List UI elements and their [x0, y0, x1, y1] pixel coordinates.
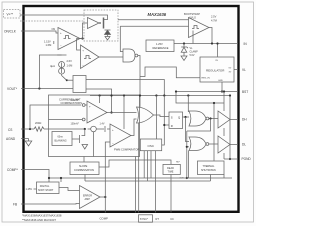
- zener D2 VL clamp: [183, 44, 185, 48]
- svg-text:200Ω: 200Ω: [35, 121, 41, 125]
- main bus line: [90, 95, 230, 97]
- node CS comparator junction: [84, 128, 86, 130]
- svg-text:100mV*: 100mV*: [71, 99, 80, 102]
- svg-text:VOUT*: VOUT*: [7, 87, 18, 91]
- regulator box: [200, 57, 234, 82]
- blanking box: [52, 132, 72, 146]
- wire slope comp out to dead time: [99, 160, 171, 167]
- wire rail upper to UVLO: [118, 19, 189, 21]
- hysteresis glyph U2: [84, 56, 91, 59]
- svg-text:1.25V: 1.25V: [156, 42, 163, 46]
- wire AGND: [21, 138, 29, 140]
- svg-text:4.7M: 4.7M: [211, 18, 217, 22]
- svg-text:2.6V: 2.6V: [67, 59, 73, 63]
- wire rail lower to UVLO: [120, 25, 188, 27]
- wire driver 2 output: [230, 144, 238, 146]
- pin V+ dashed box: [4, 10, 21, 19]
- svg-text:R: R: [171, 124, 173, 128]
- wire blanking circle down: [93, 132, 95, 157]
- driver A3 low side: [218, 136, 230, 153]
- wire error amp output to bottom pin COMP: [104, 197, 106, 213]
- battery 1.4V: [104, 126, 106, 132]
- wire bus stub to comparator: [99, 96, 101, 104]
- transistor Q2: [79, 135, 81, 143]
- wire switch to timer box: [67, 79, 73, 81]
- wire dead time to bottom pin: [170, 175, 172, 213]
- container box current limit section: [49, 95, 140, 157]
- svg-text:MAX1636: MAX1636: [148, 12, 167, 17]
- switch S1: [62, 76, 67, 80]
- svg-text:COMPENSATION: COMPENSATION: [74, 169, 94, 172]
- wire U3 output down to VL line: [209, 28, 212, 44]
- wire G4 output to driver 2: [209, 143, 218, 145]
- svg-text:*MAX1636/MAX1637/MAX1638: *MAX1636/MAX1637/MAX1638: [22, 213, 62, 217]
- buffer A1: [88, 18, 100, 29]
- ground Q2: [82, 145, 88, 150]
- svg-text:−: −: [60, 43, 62, 47]
- ground internal switch: [105, 35, 110, 41]
- comparator U5 PWM: [110, 124, 131, 147]
- wire driver rail 2: [223, 128, 225, 136]
- svg-text:**MAX1636 AND MAX1637: **MAX1636 AND MAX1637: [22, 218, 56, 222]
- svg-text:FB: FB: [13, 203, 17, 207]
- wire U1 output to buffer: [80, 23, 87, 39]
- wire error amp output: [100, 196, 105, 198]
- svg-text:UVLO: UVLO: [189, 15, 196, 19]
- svg-text:DH: DH: [242, 118, 247, 122]
- gate G3 NOR high side: [189, 111, 206, 126]
- svg-text:GND: GND: [218, 80, 223, 82]
- svg-text:V+**: V+**: [7, 13, 14, 17]
- node U1 output: [81, 37, 83, 39]
- node bus 1: [99, 94, 101, 96]
- node PGND: [229, 158, 231, 160]
- wire soft start top tap: [60, 178, 62, 182]
- svg-text:COMP*: COMP*: [7, 168, 19, 172]
- svg-text:100mV*: 100mV*: [71, 123, 80, 126]
- svg-text:SYNC*: SYNC*: [140, 217, 148, 221]
- wire regulator gnd to BST line: [221, 82, 223, 92]
- resistor R1: [34, 127, 44, 131]
- wire bus to OSC: [155, 96, 157, 140]
- transistor Q1: [99, 22, 101, 24]
- dashed box internal switch: [84, 10, 118, 41]
- svg-text:S: S: [171, 116, 173, 120]
- outer image frame: [2, 2, 254, 222]
- driver A2 high side: [218, 111, 230, 128]
- node U4 output: [110, 111, 112, 113]
- svg-text:ON: ON: [52, 28, 56, 31]
- svg-text:2.5V: 2.5V: [211, 15, 217, 19]
- wire OR gate corner to bottom pin: [138, 123, 140, 213]
- wire latch R input from OSC: [162, 96, 165, 146]
- wire slope comp bottom riser: [84, 175, 86, 182]
- wire G1 output riser to bus and bottom: [138, 56, 140, 108]
- wire thermal feed vertical: [213, 103, 215, 161]
- node zener tap: [183, 42, 185, 44]
- reference box 1.25V: [146, 40, 174, 52]
- comparator U4 current limit: [87, 101, 107, 123]
- wire ref to soft start: [34, 188, 37, 190]
- comparator U1 shutdown: [58, 28, 80, 50]
- wire container riser to bottom: [134, 157, 136, 213]
- node bus 3: [139, 94, 141, 96]
- wire FB to error amp: [21, 203, 80, 206]
- svg-text:REGULATOR: REGULATOR: [206, 68, 225, 72]
- svg-text:3V: 3V: [229, 71, 232, 73]
- wire B1 out lower to comparator output node: [86, 89, 112, 113]
- wire to ramp source: [96, 128, 104, 130]
- soft start box: [37, 182, 60, 194]
- dead time box: [163, 164, 180, 174]
- svg-text:OSC: OSC: [148, 144, 155, 148]
- error amp A4: [80, 186, 101, 209]
- wire G2 output to latch S: [154, 115, 170, 117]
- svg-text:+: +: [60, 31, 62, 35]
- comparator U2: [81, 45, 100, 69]
- svg-text:1.25V: 1.25V: [26, 188, 33, 191]
- gate G2 OR: [137, 107, 154, 123]
- wire latch Q down to NOR2: [186, 117, 190, 142]
- hysteresis glyph U3: [192, 26, 199, 29]
- svg-text:PWM COMPARATOR: PWM COMPARATOR: [114, 148, 139, 152]
- svg-text:IN: IN: [244, 42, 248, 46]
- wire switchover to regulator input: [140, 67, 200, 78]
- svg-text:4μA: 4μA: [50, 64, 55, 68]
- offset source upper: [82, 104, 85, 107]
- wire ON/CLK to comparator U1: [21, 31, 58, 33]
- wire OSC to bottom pin RT: [155, 151, 157, 213]
- ground zener: [181, 56, 187, 61]
- wire VL line to regulator input: [217, 44, 219, 58]
- wire driver rail 1: [223, 92, 225, 112]
- wire driver 2 ground: [223, 153, 225, 159]
- pin SYNC bottom boxed label: [139, 215, 153, 222]
- wire CS to resistor: [21, 128, 34, 130]
- svg-text:+: +: [89, 104, 91, 108]
- wire U5 output to OR gate: [131, 119, 137, 136]
- svg-text:COMP: COMP: [100, 217, 109, 221]
- wire G3 feedback to G4: [187, 119, 211, 132]
- wire reference output to VL line: [174, 43, 238, 45]
- svg-text:5V: 5V: [229, 68, 232, 70]
- node CS sense: [29, 128, 31, 130]
- svg-text:SHUTDOWN: SHUTDOWN: [201, 169, 216, 172]
- blanking switch circle: [91, 126, 97, 132]
- svg-text:DL: DL: [242, 143, 246, 147]
- diode D1: [105, 30, 111, 35]
- wire regulator output to pin VL: [234, 69, 238, 71]
- svg-text:RT: RT: [156, 217, 160, 221]
- wire bus feed to NOR1 top: [187, 96, 190, 112]
- rail PGND vertical: [229, 96, 231, 160]
- wire upper input: [85, 104, 87, 106]
- wire COMP pin to soft-start: [21, 170, 49, 183]
- wire OSC pin b: [147, 151, 149, 181]
- wire NOR2 corner down to bus: [188, 151, 190, 179]
- wire I1 to switch: [61, 74, 63, 76]
- svg-text:REFERENCE: REFERENCE: [153, 46, 169, 50]
- hysteresis glyph U1: [64, 36, 71, 39]
- wire thermal gnd: [223, 175, 225, 179]
- wire blanking to Q2 gate: [72, 138, 80, 140]
- wire CS sense riser: [30, 105, 81, 129]
- node bus 2b: [110, 94, 112, 96]
- svg-text:ON/CLK: ON/CLK: [4, 30, 17, 34]
- ground AGND: [25, 139, 32, 147]
- bus lower 1: [49, 177, 232, 179]
- svg-text:BST: BST: [242, 90, 248, 94]
- svg-text:TIME: TIME: [168, 171, 174, 174]
- svg-text:THERMAL: THERMAL: [203, 165, 216, 168]
- wire error amp riser to PWM input: [105, 142, 110, 197]
- wire U2 output to gate G1: [99, 56, 123, 58]
- svg-text:VL: VL: [242, 68, 246, 72]
- svg-text:CC: CC: [170, 217, 174, 221]
- svg-text:REG_IN: REG_IN: [202, 77, 211, 79]
- wire latch Q to NOR1: [183, 116, 190, 118]
- svg-text:SOFT-START: SOFT-START: [38, 189, 54, 192]
- slope compensation box: [70, 162, 99, 175]
- bus lower 2: [85, 180, 211, 182]
- wire driver 1 output: [230, 119, 238, 121]
- wire G3 output to driver 1: [209, 118, 218, 120]
- wire VOUT to timer box: [21, 88, 73, 90]
- node bus 6: [187, 94, 189, 96]
- svg-text:BLANKING: BLANKING: [55, 139, 67, 142]
- wire PGND to pin: [224, 158, 238, 160]
- wire BST riser to driver rail: [176, 92, 224, 104]
- svg-text:SLOPE: SLOPE: [79, 165, 88, 168]
- wire U1 output to comparator U2 input: [77, 39, 83, 51]
- svg-text:5.6V: 5.6V: [190, 54, 195, 57]
- node bus 2: [123, 94, 125, 96]
- wire OSC pin c: [150, 151, 152, 178]
- svg-text:DIGITAL: DIGITAL: [40, 185, 50, 188]
- svg-text:HLP: HLP: [176, 162, 181, 164]
- svg-text:AMP: AMP: [85, 198, 91, 201]
- wire V+ to internal FET: [20, 15, 108, 19]
- node error amp output: [104, 196, 106, 198]
- wire container to slope comp: [83, 157, 85, 163]
- svg-text:ERROR: ERROR: [83, 194, 92, 197]
- wire bus stub to PWM: [123, 96, 125, 130]
- svg-text:1.6M: 1.6M: [67, 63, 73, 67]
- svg-text:−: −: [112, 141, 114, 145]
- svg-text:DEAD: DEAD: [167, 167, 174, 170]
- wire lower input: [49, 119, 83, 121]
- svg-text:BOOTSTRAP: BOOTSTRAP: [184, 12, 200, 16]
- wire regulator left input: [192, 31, 194, 44]
- wire dashed option to internal switch box: [20, 20, 84, 22]
- node bus 5: [163, 94, 165, 96]
- svg-text:+: +: [112, 128, 114, 132]
- timer box B1: [73, 76, 86, 93]
- node VOUT tap: [38, 87, 40, 89]
- svg-text:CS: CS: [8, 128, 12, 132]
- node bus 4: [155, 94, 157, 96]
- main border of IC block: [24, 6, 239, 212]
- svg-text:AGND: AGND: [6, 137, 16, 141]
- wire U4 output to OR gate: [107, 112, 137, 114]
- oscillator box: [140, 139, 161, 151]
- wire B1 out upper to bus corner: [86, 80, 164, 96]
- svg-text:1.15V: 1.15V: [44, 40, 51, 44]
- gate G1 NAND: [123, 49, 135, 62]
- wire R1 to comparator network: [44, 128, 85, 130]
- offset source lower: [82, 118, 85, 121]
- wire rail riser to gate G1: [120, 26, 123, 51]
- svg-text:PGND: PGND: [242, 157, 252, 161]
- gate G4 NOR low side: [189, 137, 206, 151]
- svg-text:1.6M: 1.6M: [46, 43, 52, 47]
- svg-text:Q: Q: [178, 116, 181, 120]
- wire BST line: [176, 91, 238, 93]
- wire soft start to error amp: [59, 188, 80, 191]
- wire thermal bottom riser: [210, 175, 212, 182]
- svg-text:1.4V: 1.4V: [100, 123, 105, 126]
- wire battery to PWM comparator: [107, 128, 110, 130]
- wire VOUT sense riser to U1 inverting input: [39, 55, 61, 89]
- svg-text:IN: IN: [216, 60, 219, 62]
- thermal shutdown box: [198, 161, 225, 175]
- comparator U3 bootstrap UVLO: [189, 18, 210, 38]
- wire OSC pin a: [143, 151, 145, 178]
- wire feedback riser to NOR2 and bus: [186, 131, 188, 178]
- svg-text:+: +: [82, 49, 84, 53]
- svg-text:60ns: 60ns: [58, 135, 64, 138]
- latch FF1: [169, 112, 183, 129]
